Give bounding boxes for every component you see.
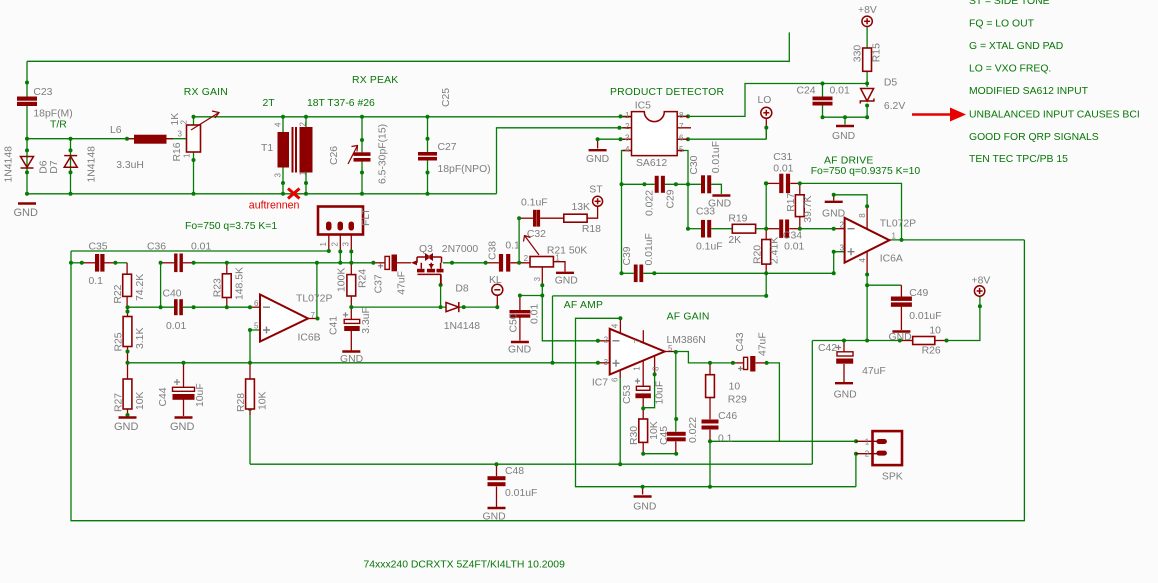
capacitor C24 0.01	[813, 97, 833, 106]
svg-text:D5: D5	[884, 78, 898, 89]
wire C46 stem to junction	[709, 430, 711, 442]
svg-text:GND: GND	[170, 421, 195, 433]
svg-text:R19: R19	[728, 213, 747, 224]
svg-text:C46: C46	[718, 411, 737, 422]
resistor R25 3.1K	[123, 317, 132, 347]
wire C44 stem	[183, 363, 185, 388]
svg-text:ST: ST	[589, 185, 603, 196]
wire C42 stem	[843, 341, 845, 352]
svg-text:3: 3	[533, 277, 542, 282]
svg-text:FQ = LO OUT: FQ = LO OUT	[969, 18, 1035, 29]
svg-text:1: 1	[555, 253, 560, 262]
svg-text:1: 1	[299, 171, 308, 176]
wire C37 pins	[373, 262, 385, 264]
wire audio row2 left segment	[71, 262, 82, 264]
svg-text:D8: D8	[455, 283, 469, 294]
wire H3 RF input row y138.7	[27, 138, 134, 140]
svg-text:4: 4	[274, 122, 283, 127]
svg-text:47uF: 47uF	[758, 332, 769, 356]
red X auftrennen mark	[288, 189, 300, 199]
ground GND under C41	[342, 350, 360, 352]
wire R26 to +8V	[947, 296, 980, 340]
red arrow annotation	[912, 113, 952, 116]
wire R21 pin3 drop	[541, 267, 543, 285]
capacitor C40 0.01	[174, 299, 183, 315]
capacitor C45 0.022	[667, 432, 686, 442]
svg-text:MODIFIED SA612 INPUT: MODIFIED SA612 INPUT	[969, 86, 1089, 97]
wire C24 bottom row with GND	[822, 103, 824, 117]
wire C30 right to GND	[711, 184, 721, 194]
wire SA612 pin5 down to C30 junction	[677, 151, 688, 185]
wire SPK pin2 riser	[855, 454, 857, 487]
svg-text:6: 6	[611, 377, 620, 382]
svg-text:2K: 2K	[728, 235, 741, 246]
wire C31 feedback to IC6A output	[800, 183, 902, 240]
svg-text:KL: KL	[489, 275, 502, 286]
svg-text:AF AMP: AF AMP	[564, 300, 603, 311]
wire R20 stubs	[765, 229, 767, 240]
wire C41 junction row / D8 row y307.1	[351, 306, 446, 308]
svg-text:R16: R16	[172, 142, 183, 161]
wire SPK pin1 row y441.3	[710, 440, 856, 442]
wire row2 middle segment	[194, 262, 374, 264]
svg-text:1: 1	[183, 153, 192, 158]
svg-text:GND: GND	[822, 209, 845, 220]
svg-text:Q3: Q3	[419, 244, 433, 255]
svg-text:3.1K: 3.1K	[135, 328, 146, 349]
svg-text:C45: C45	[659, 426, 670, 445]
svg-text:3: 3	[604, 358, 609, 367]
svg-text:TL072P: TL072P	[296, 294, 332, 305]
ground GND AF row	[634, 495, 652, 497]
wire R24 column x351.3	[350, 263, 352, 275]
capacitor C43 47uF electrolytic	[738, 366, 743, 371]
wire Q3 source down	[440, 275, 442, 285]
resistor R15 330	[863, 48, 872, 71]
wire SA612 pin6 to LO	[677, 138, 766, 140]
wire T1 pin4 riser	[282, 117, 284, 132]
capacitor C36 0.01	[174, 254, 183, 273]
svg-text:2: 2	[524, 254, 529, 263]
wire R27 column	[127, 363, 129, 379]
wire C29 row y184.3	[622, 183, 655, 185]
svg-text:C31: C31	[773, 152, 792, 163]
wire SA612 pin2 feed from bus	[497, 128, 632, 194]
wire R21 wiper riser x519.1	[518, 218, 520, 263]
resistor R30 10K	[639, 419, 648, 442]
wire branch to C49	[867, 284, 901, 286]
wire D5 cathode down	[866, 105, 868, 117]
ground GND left	[18, 202, 36, 204]
wire riser to IC6A pin3	[834, 252, 845, 274]
svg-text:R30: R30	[629, 426, 640, 445]
svg-text:R23: R23	[213, 278, 224, 297]
svg-text:LO = VXO FREQ.: LO = VXO FREQ.	[969, 64, 1051, 75]
wire C49 stem top	[900, 285, 902, 296]
svg-text:C44: C44	[158, 387, 169, 406]
svg-text:GND: GND	[483, 512, 506, 523]
diode D8 1N4148	[446, 302, 459, 312]
power +8V top	[862, 16, 872, 26]
resistor R17 39.7K	[795, 195, 804, 217]
svg-text:auftrennen: auftrennen	[249, 200, 300, 212]
svg-text:2: 2	[840, 220, 845, 229]
capacitor C46 0.1	[702, 420, 719, 430]
svg-text:C30: C30	[689, 155, 700, 174]
wire IC7 pin2 row	[542, 296, 598, 341]
wire Q3 drain to C38	[443, 262, 486, 264]
svg-text:C43: C43	[735, 332, 746, 351]
wire C34 junction to IC6A pin2	[800, 228, 834, 230]
wire C34 row y228.7	[766, 228, 779, 230]
wire x812 riser to C48 row	[811, 341, 813, 465]
wire top antenna net	[27, 32, 789, 61]
wire +8V AF row y340.5	[812, 340, 900, 342]
svg-text:TL072P: TL072P	[880, 218, 916, 229]
wire L6 pins	[127, 138, 134, 140]
ground GND under C30	[712, 194, 730, 196]
op-amp IC6B TL072P	[260, 295, 308, 342]
capacitor C48 0.01uF	[488, 476, 506, 486]
ground GND under SA612 pin3	[589, 149, 607, 151]
svg-text:4: 4	[611, 323, 620, 328]
junction dots product detector	[596, 82, 870, 298]
capacitor C35 0.1	[95, 254, 105, 272]
wire C26 column	[361, 117, 363, 153]
svg-text:18pF(M): 18pF(M)	[33, 109, 72, 120]
svg-text:GND: GND	[555, 275, 578, 286]
svg-text:0.022: 0.022	[645, 190, 656, 216]
svg-text:74xxx240 DCRXTX 5Z4FT/KI4LTH 1: 74xxx240 DCRXTX 5Z4FT/KI4LTH 10.2009	[364, 560, 566, 571]
resistor R27 10K	[123, 379, 132, 409]
diode D6	[21, 157, 34, 169]
svg-text:5: 5	[254, 322, 259, 331]
svg-text:2: 2	[330, 242, 339, 247]
wire T1 pin2 riser	[305, 117, 307, 127]
wire C48 row y464.2	[250, 463, 812, 465]
capacitor C49 0.01uF	[891, 297, 912, 307]
svg-text:39.7K: 39.7K	[803, 195, 814, 222]
wire C33 row y228.7	[688, 228, 701, 230]
svg-text:C50: C50	[509, 313, 520, 332]
svg-text:GND: GND	[586, 154, 609, 165]
svg-text:1N4148: 1N4148	[4, 146, 15, 183]
wire R23 column x226.8	[226, 263, 228, 274]
svg-text:0.1: 0.1	[718, 434, 733, 445]
wire C35 pins	[82, 262, 95, 264]
svg-text:R21 50K: R21 50K	[547, 246, 588, 257]
resistor R18 13K	[564, 214, 587, 222]
wire C24 top	[822, 84, 824, 97]
wire bias row y296 to C39 junction	[553, 295, 767, 297]
svg-text:10K: 10K	[258, 391, 269, 410]
wire R29 column	[709, 363, 711, 375]
svg-text:GND: GND	[340, 354, 363, 365]
ic IC5 SA612 box	[632, 112, 678, 156]
ground GND under C24	[836, 125, 854, 127]
wire SPK pin lines	[856, 440, 877, 442]
svg-text:0.01: 0.01	[784, 241, 804, 252]
wire C31 row y183.4	[766, 182, 779, 184]
svg-text:GND: GND	[633, 502, 656, 513]
potentiometer R16 1K	[187, 125, 201, 152]
svg-text:C32: C32	[527, 229, 546, 240]
wire IC7 pin7 stub	[642, 330, 644, 343]
svg-text:8: 8	[858, 213, 867, 218]
svg-text:R17: R17	[786, 193, 797, 212]
svg-text:C29: C29	[666, 189, 677, 208]
svg-text:1: 1	[625, 111, 630, 120]
svg-text:C41: C41	[329, 316, 340, 335]
resistor R19 2K	[732, 224, 755, 233]
wire C39 column x621.5	[621, 184, 623, 273]
wire FLT pin3 drop	[350, 235, 352, 252]
svg-text:7: 7	[679, 122, 684, 131]
svg-text:UNBALANCED INPUT CAUSES BCI: UNBALANCED INPUT CAUSES BCI	[969, 110, 1140, 121]
svg-text:3: 3	[341, 242, 350, 247]
svg-text:18T T37-6 #26: 18T T37-6 #26	[307, 98, 375, 109]
wire R28 column	[249, 363, 251, 379]
svg-text:GOOD FOR QRP SIGNALS: GOOD FOR QRP SIGNALS	[969, 132, 1099, 143]
wire IC7 pin8 to gain node	[654, 356, 656, 375]
svg-text:3: 3	[840, 243, 845, 252]
trimmer capacitor C26	[354, 152, 371, 161]
svg-text:6.5-30pF(15): 6.5-30pF(15)	[378, 124, 389, 184]
ground GND R21 pin1	[556, 272, 574, 274]
wire IC7 pin2 stub	[598, 340, 610, 342]
capacitor C39 0.01uF	[634, 265, 643, 283]
svg-text:0.01: 0.01	[530, 304, 541, 324]
svg-text:IC5: IC5	[635, 101, 651, 112]
ground GND IC6A pin8	[825, 201, 843, 203]
resistor R20 2.41K	[762, 240, 771, 265]
wire IC7 pin3 stub	[598, 362, 610, 364]
wire IC6A pin8 to GND	[866, 206, 868, 229]
wire C39 row y273.3	[622, 272, 634, 274]
svg-text:C26: C26	[329, 146, 340, 165]
capacitor C53 10uF electrolytic	[635, 378, 640, 383]
svg-text:10K: 10K	[135, 391, 146, 410]
wire C32 row y218.2	[519, 217, 533, 219]
svg-text:5: 5	[668, 344, 673, 353]
wire SA612 pin8 to D5 junction	[677, 84, 867, 117]
svg-text:148.5K: 148.5K	[235, 267, 246, 300]
svg-text:7: 7	[311, 311, 316, 320]
wire FLT pin2 drop	[339, 235, 341, 252]
svg-text:0.01uF: 0.01uF	[644, 233, 655, 265]
wire row1 filter top y251	[71, 250, 329, 252]
svg-text:10uF: 10uF	[655, 381, 666, 405]
resistor R26 10	[913, 337, 935, 345]
wire IC6A pin4 column	[866, 251, 868, 274]
wire D7 column	[70, 139, 72, 194]
svg-text:SA612: SA612	[636, 158, 667, 169]
svg-text:0.1uF: 0.1uF	[521, 197, 548, 208]
svg-text:GND: GND	[114, 421, 139, 433]
wire R21 pin1 to GND	[553, 262, 565, 272]
svg-text:1: 1	[632, 366, 641, 371]
junction dots Q3 KL area	[439, 216, 545, 309]
svg-text:D6: D6	[39, 160, 50, 174]
capacitor C38 0.1	[499, 254, 510, 272]
capacitor C42 47uF electrolytic	[836, 345, 841, 350]
svg-text:100K: 100K	[337, 268, 348, 292]
svg-text:10uF: 10uF	[195, 383, 206, 407]
svg-text:2T: 2T	[263, 98, 276, 109]
svg-text:R27: R27	[114, 393, 125, 412]
svg-text:6.2V: 6.2V	[884, 101, 905, 112]
svg-text:C23: C23	[33, 87, 52, 98]
svg-text:5: 5	[679, 145, 684, 154]
svg-text:C27: C27	[438, 142, 457, 153]
wire GND row stub	[642, 487, 644, 495]
capacitor C33 0.1uF	[701, 220, 711, 238]
svg-text:C37: C37	[374, 274, 385, 293]
svg-text:0.01uF: 0.01uF	[505, 488, 537, 499]
svg-text:SPK: SPK	[882, 472, 903, 483]
capacitor C34 0.01	[779, 220, 789, 238]
resistor R29 10	[706, 375, 715, 398]
capacitor C32 0.1uF	[533, 210, 540, 227]
svg-text:1N4148: 1N4148	[87, 146, 98, 183]
capacitor C37 47uF electrolytic	[378, 263, 383, 268]
svg-text:0.01uF: 0.01uF	[909, 311, 941, 322]
wire C36 branch down to C40 row	[160, 263, 162, 307]
svg-text:3: 3	[274, 173, 283, 178]
svg-text:RX PEAK: RX PEAK	[352, 75, 398, 86]
wire IC6B pin6 stub	[250, 306, 260, 308]
svg-text:C49: C49	[909, 288, 928, 299]
wire C45 lower stem	[675, 442, 677, 454]
svg-text:3.3uF: 3.3uF	[361, 307, 372, 334]
zener diode D5 6.2V	[860, 89, 874, 104]
transformer T1	[278, 127, 313, 173]
svg-text:1: 1	[892, 232, 897, 241]
svg-text:C40: C40	[163, 289, 182, 300]
resistor R24 100K	[347, 275, 356, 296]
svg-text:10: 10	[729, 382, 741, 393]
wire C35 to R22 corner	[115, 262, 127, 264]
svg-text:R29: R29	[728, 395, 747, 406]
wire GND stub IC6A pin8	[833, 195, 835, 201]
wire R26 pin lines	[900, 340, 913, 342]
resistor R28 10K	[246, 379, 255, 409]
svg-text:R28: R28	[236, 393, 247, 412]
svg-text:GND: GND	[14, 207, 39, 219]
svg-text:FLT: FLT	[361, 208, 372, 226]
wire left border loop	[71, 240, 1024, 521]
svg-text:2.41K: 2.41K	[770, 237, 781, 264]
svg-text:7: 7	[633, 339, 642, 344]
svg-text:47uF: 47uF	[397, 271, 408, 295]
svg-text:8: 8	[652, 366, 661, 371]
svg-text:T/R: T/R	[50, 119, 67, 130]
wire C41 stem	[350, 307, 352, 319]
wire vertical x766 C31 branch	[765, 183, 767, 228]
svg-text:4: 4	[625, 145, 630, 154]
svg-text:2: 2	[625, 122, 630, 131]
svg-text:T1: T1	[261, 143, 273, 154]
junction dots RF section	[25, 81, 430, 196]
svg-text:GND: GND	[834, 390, 857, 401]
capacitor C44 10uF electrolytic	[174, 379, 180, 385]
capacitor C31 0.01	[779, 174, 790, 193]
wire R19 to R20 junction	[756, 228, 767, 230]
wire C38 pins	[486, 262, 499, 264]
transistor Q3 2N7000	[417, 257, 442, 269]
svg-text:IC7: IC7	[592, 378, 608, 389]
wire C36 pins	[161, 262, 175, 264]
ground GND under R27	[119, 416, 137, 418]
svg-text:0.01uF: 0.01uF	[711, 141, 722, 173]
svg-text:+8V: +8V	[972, 276, 991, 287]
svg-text:0.1uF: 0.1uF	[696, 242, 723, 253]
svg-text:1: 1	[865, 438, 870, 447]
wire bias drop x552.5 to row B	[552, 296, 554, 363]
junction dots filter chain	[69, 249, 555, 417]
svg-text:R25: R25	[114, 332, 125, 351]
connector FLT	[318, 207, 363, 235]
svg-text:C36: C36	[147, 242, 166, 253]
ground GND under C44	[175, 416, 193, 418]
wire R22 pins	[126, 263, 128, 274]
power ST connector	[593, 196, 603, 206]
svg-text:6: 6	[679, 134, 684, 143]
svg-text:2N7000: 2N7000	[442, 244, 479, 255]
wire GND stub under C24 row	[844, 117, 846, 124]
wire C43 pins	[733, 362, 744, 364]
wire KL stem	[496, 295, 498, 307]
resistor R22 74.2K	[123, 274, 132, 296]
capacitor C27	[418, 152, 437, 161]
wire gain node bottom	[643, 453, 676, 455]
wire SA612 pin3 to GND	[598, 138, 632, 140]
ground GND under C42	[835, 382, 853, 384]
capacitor C30 0.01uF	[701, 175, 711, 193]
svg-text:1N4148: 1N4148	[444, 321, 481, 332]
svg-text:0.022: 0.022	[688, 417, 699, 443]
wire R20 bottom to bias row	[765, 273, 767, 295]
svg-text:C48: C48	[505, 466, 524, 477]
svg-text:Fo=750 q=3.75 K=1: Fo=750 q=3.75 K=1	[185, 221, 277, 232]
svg-text:0.1: 0.1	[89, 276, 104, 287]
potentiometer R21 50K	[530, 257, 553, 267]
svg-text:ST = SIDE TONE: ST = SIDE TONE	[969, 0, 1050, 7]
svg-text:C24: C24	[797, 85, 816, 96]
wire FLT pin1 drop	[328, 235, 330, 252]
wire R15 +8V column	[866, 27, 868, 49]
wire SA612 pin4 down to C29 row	[622, 151, 632, 185]
wire IC6B pin5 riser	[250, 330, 260, 363]
ground GND under C48	[488, 507, 506, 509]
svg-text:2: 2	[865, 450, 870, 459]
svg-text:C35: C35	[89, 242, 108, 253]
svg-text:GND: GND	[508, 345, 531, 356]
svg-text:TEN TEC TPC/PB 15: TEN TEC TPC/PB 15	[969, 154, 1068, 165]
wire C30 junction down to C33 row	[687, 184, 689, 228]
svg-text:R20: R20	[753, 245, 764, 264]
capacitor C23	[17, 97, 37, 107]
svg-text:3: 3	[178, 130, 183, 139]
capacitor C41 3.3uF electrolytic	[343, 312, 348, 317]
wire R25 column	[127, 307, 129, 316]
svg-text:10: 10	[929, 325, 941, 336]
wire C45 column	[675, 352, 677, 432]
svg-text:AF DRIVE: AF DRIVE	[824, 155, 874, 166]
wire IC6A output row y239.9	[889, 239, 1024, 241]
wire IC7 output pin5	[665, 351, 676, 353]
wire C40 row y307.2	[128, 306, 175, 308]
